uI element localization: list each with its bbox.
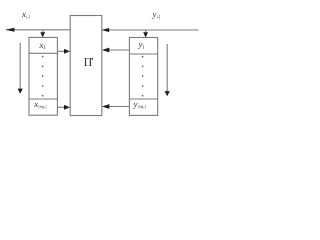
svg-text:y: y: [133, 99, 138, 109]
arrowhead down shift right: [165, 91, 170, 96]
arrowhead down into register Y: [143, 32, 148, 37]
arrowhead right into block IT (x i+m-1): [64, 105, 70, 110]
wire y(i) to block IT: [108, 49, 129, 51]
wire x(i) to block IT: [57, 50, 64, 52]
arrowhead left into block IT (y i+m-1): [102, 104, 109, 109]
svg-text:i+m-1: i+m-1: [138, 105, 146, 111]
svg-text:x: x: [21, 9, 26, 19]
register Y box: [129, 38, 157, 116]
arrowhead down shift left: [18, 89, 23, 94]
register Y cell divider top: [129, 53, 157, 55]
shift direction arrow left, vertical line: [19, 43, 21, 89]
block IT (central transformation box): [70, 16, 102, 116]
register X cell divider top: [29, 52, 57, 54]
register X box: [29, 37, 57, 115]
prime tick of IT label: [92, 58, 94, 60]
register Y cell divider bottom: [129, 98, 157, 100]
svg-text:i+m-1: i+m-1: [39, 104, 47, 110]
svg-text:x: x: [33, 99, 38, 109]
register Y dots: [142, 56, 144, 97]
svg-text:i: i: [44, 45, 46, 51]
arrowhead down into register X: [40, 32, 45, 37]
register X cell divider bottom: [29, 98, 57, 100]
arrowhead right into block IT (x i): [64, 49, 70, 54]
wire x(i-1) output, horizontal top-left: [6, 29, 70, 31]
shift direction arrow right, vertical line: [166, 44, 168, 91]
svg-text:i-1: i-1: [26, 15, 30, 21]
register X dots: [42, 56, 44, 97]
svg-text:i: i: [142, 45, 144, 51]
wire y(i+m-1) to block IT: [108, 106, 129, 108]
wire drop into register X top: [42, 30, 44, 33]
svg-text:Π: Π: [84, 55, 93, 69]
arrowhead left into block IT (y i): [102, 48, 109, 53]
wire drop into register Y top: [145, 30, 147, 33]
wire y(i-1) feedback, horizontal top-right: [102, 29, 199, 31]
arrowhead left at x(i-1) wire: [6, 28, 15, 32]
wire x(i+m-1) to block IT: [57, 106, 64, 108]
svg-text:i-1: i-1: [157, 15, 161, 21]
arrowhead left into block IT right edge (top): [102, 28, 109, 32]
